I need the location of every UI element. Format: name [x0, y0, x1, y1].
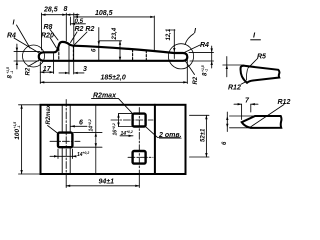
svg-text:R2max: R2max: [93, 92, 117, 99]
leader R2 R2 a: [71, 32, 78, 43]
leader I left: [17, 25, 31, 48]
svg-text:108,5: 108,5: [95, 10, 113, 17]
dim 3: [59, 44, 84, 74]
dim 108,5: [74, 16, 154, 52]
svg-text:R4: R4: [7, 33, 16, 40]
centerline hole1 horizontal: [50, 140, 80, 142]
centerline slot vertical: [65, 100, 67, 180]
svg-text:R8: R8: [44, 24, 53, 31]
leader R4 right: [184, 45, 200, 53]
hidden line hole2 left: [132, 50, 134, 60]
detail I inner line: [246, 69, 247, 80]
leader R5: [248, 59, 258, 69]
hidden line hole1 left: [58, 45, 60, 60]
svg-text:R2: R2: [26, 67, 32, 75]
svg-text:R2: R2: [193, 76, 199, 84]
svg-text:R2max: R2max: [46, 104, 52, 124]
svg-text:-1: -1: [10, 71, 14, 74]
slot line right: [69, 105, 71, 174]
detail I underline: [250, 39, 260, 41]
dim 17: [40, 54, 53, 74]
leader R2 R2 b: [74, 32, 87, 45]
dim 14 hole1 vertical: [74, 133, 103, 148]
svg-text:94±1: 94±1: [99, 179, 115, 186]
hole 2a square: [133, 114, 146, 127]
detail 2 shape: [242, 116, 282, 128]
svg-text:R12: R12: [278, 99, 291, 106]
leader R2 right: [185, 61, 195, 75]
svg-text:R5: R5: [257, 54, 266, 61]
dim 6 leader: [98, 28, 100, 61]
dim 100 left: [19, 105, 41, 174]
leader R2max rotated: [48, 126, 58, 134]
svg-text:2 отв.: 2 отв.: [158, 132, 182, 139]
dim 12,1: [168, 30, 176, 59]
hole 2b square: [133, 151, 146, 164]
svg-text:8: 8: [64, 6, 68, 13]
dim 8 left vertical: [14, 44, 40, 69]
leader R12 detail I: [241, 82, 246, 85]
svg-text:6: 6: [79, 120, 83, 127]
svg-text:17: 17: [43, 66, 52, 73]
svg-text:-1: -1: [205, 69, 209, 72]
dim 7 detail2: [234, 103, 258, 120]
dim 6 slot: [71, 125, 87, 127]
slot line left: [61, 105, 63, 174]
leader R4 left: [14, 38, 40, 54]
centerline hole2b horizontal: [128, 156, 153, 158]
centerline hole2a horizontal: [111, 119, 153, 121]
centerline holes2 vertical: [138, 108, 140, 170]
detail I small dim: [223, 57, 244, 77]
leader I right: [185, 34, 194, 45]
svg-text:3: 3: [83, 66, 87, 73]
svg-text:R12: R12: [228, 85, 241, 92]
leader R2 left bottom: [28, 60, 40, 67]
svg-text:28,5: 28,5: [43, 7, 58, 14]
svg-text:R2 R2: R2 R2: [75, 26, 95, 33]
detail circle right: [168, 44, 193, 69]
svg-text:12,1: 12,1: [166, 28, 172, 40]
side view part outline: [39, 42, 188, 61]
dim 185: [40, 60, 187, 84]
hole 1 square: [58, 133, 72, 148]
dim 14 hole2a bottom: [120, 135, 133, 137]
leader R8: [50, 30, 58, 41]
svg-text:100: 100: [14, 128, 21, 139]
dim 14 hole1 bottom: [50, 149, 76, 159]
plan view rectangle: [41, 105, 186, 174]
dim 0,5: [70, 17, 85, 25]
svg-text:-1: -1: [17, 125, 21, 128]
dim 28,5: [42, 13, 67, 50]
dim 52 right: [190, 115, 210, 157]
leader R2max top: [92, 99, 133, 114]
plan thin vertical line: [95, 105, 97, 174]
svg-text:52±1: 52±1: [201, 128, 207, 142]
dim 16 hole2a vertical: [117, 114, 132, 127]
dim 8 top: [66, 13, 79, 44]
dim 8 right vertical: [189, 46, 214, 68]
hidden line hole1 right: [72, 46, 74, 60]
svg-text:0,5: 0,5: [75, 18, 84, 25]
svg-text:185±2,0: 185±2,0: [101, 75, 126, 82]
leader 2 otv: [146, 127, 180, 138]
detail I shape: [241, 66, 280, 83]
detail circle left: [23, 45, 45, 67]
hidden line hole2 right: [145, 51, 147, 61]
svg-text:23,4: 23,4: [112, 27, 118, 40]
plan inner vertical thick line: [154, 105, 156, 174]
dim 23,4: [99, 41, 122, 61]
dim 94 bottom: [66, 170, 139, 188]
svg-text:R20: R20: [41, 33, 54, 40]
svg-text:R4: R4: [200, 42, 209, 49]
dim 6 detail2: [226, 112, 256, 132]
leader R12 detail2: [250, 105, 284, 128]
leader R20: [50, 38, 57, 49]
